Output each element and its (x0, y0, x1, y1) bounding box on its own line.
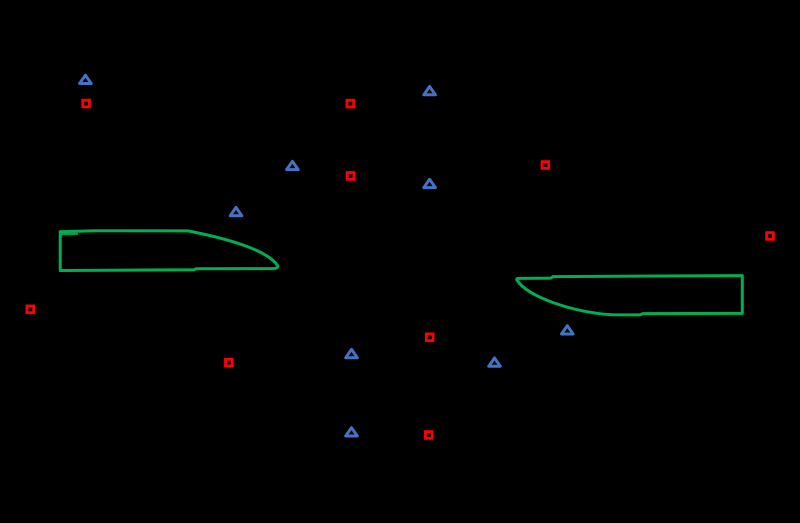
marker T2 blue triangle (287, 161, 299, 169)
marker T3 blue triangle (230, 207, 242, 215)
marker S6 red square (27, 306, 34, 313)
marker S9 red square (425, 432, 432, 439)
marker T4 blue triangle (424, 87, 436, 95)
marker T7 blue triangle (346, 428, 358, 436)
right blade profile outline (green) (517, 276, 743, 315)
marker S4 red square (542, 162, 549, 169)
marker T9 blue triangle (562, 326, 574, 334)
marker S2 red square (347, 100, 354, 107)
left blade profile outline (green) (60, 231, 278, 271)
marker S7 red square (226, 359, 233, 366)
marker S3 red square (347, 173, 354, 180)
marker T5 blue triangle (424, 179, 436, 187)
marker T8 blue triangle (489, 358, 501, 366)
marker S5 red square (767, 233, 774, 240)
marker T6 blue triangle (346, 349, 358, 357)
marker S8 red square (426, 334, 433, 341)
marker S1 red square (83, 100, 90, 107)
marker T1 blue triangle (80, 75, 92, 83)
left blade top-left overlap whisker (green) (61, 233, 78, 235)
